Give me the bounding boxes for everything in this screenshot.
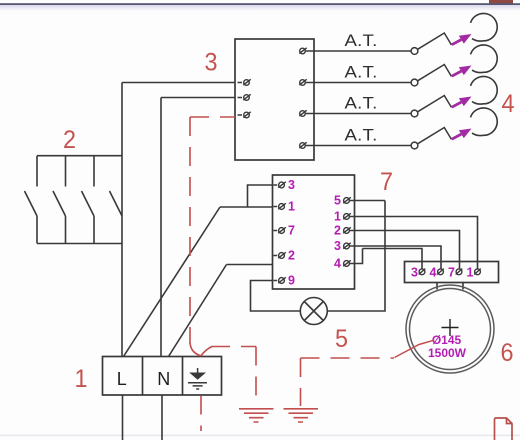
box 3 selector switch body	[235, 39, 314, 160]
wire strip to motor tick 1	[436, 283, 438, 290]
switch contact row4	[411, 128, 451, 149]
svg-text:7: 7	[448, 266, 455, 280]
earth wiring dashed to ground 1	[211, 347, 256, 407]
wire U7 right pin2 to strip	[355, 231, 460, 269]
connector strip body	[405, 262, 499, 283]
heating element coil 1	[471, 13, 498, 41]
bottom border faint line	[0, 435, 520, 437]
svg-text:N: N	[157, 369, 170, 389]
svg-text:4: 4	[502, 90, 515, 118]
U7 left terminals	[274, 182, 286, 284]
main dark wires	[122, 51, 478, 440]
wire box3 output row1	[306, 50, 411, 52]
ground symbol 1	[239, 409, 274, 422]
svg-text:5: 5	[335, 325, 348, 353]
switch contact row1	[411, 33, 451, 54]
svg-text:3: 3	[205, 49, 218, 77]
svg-text:1: 1	[75, 365, 88, 393]
wire supply cord N	[161, 395, 163, 440]
connector strip numbers	[411, 266, 474, 280]
svg-text:A.T.: A.T.	[345, 32, 378, 50]
A.T. label row3	[345, 95, 378, 113]
svg-text:6: 6	[501, 339, 514, 367]
svg-text:A.T.: A.T.	[345, 64, 378, 82]
earth leader to motor	[395, 340, 435, 357]
svg-text:7: 7	[288, 224, 295, 238]
svg-text:9: 9	[288, 274, 295, 288]
label 3	[205, 49, 218, 77]
switch contact row3	[411, 96, 451, 117]
wire U7 pin1 horizontal	[220, 206, 273, 208]
svg-text:Ø145: Ø145	[432, 333, 462, 347]
arrow row2	[452, 66, 472, 77]
U7 right pin numbers	[334, 194, 341, 271]
box 3 left terminals	[238, 79, 251, 117]
arrow row1	[452, 34, 472, 45]
svg-text:L: L	[117, 369, 127, 389]
heating element coil 2	[471, 45, 498, 73]
label 4	[502, 90, 515, 118]
label 6	[501, 339, 514, 367]
wire U7 right pin4 to strip	[355, 249, 423, 269]
bottom-right page icon	[495, 418, 513, 440]
connector strip terminals	[419, 269, 481, 275]
wire U7 pin9 to lamp	[251, 281, 301, 312]
wire supply cord L	[122, 395, 124, 440]
A.T. label row4	[345, 127, 378, 145]
svg-text:A.T.: A.T.	[345, 127, 378, 145]
U7 right terminals	[343, 197, 354, 266]
wire box3 output row2	[306, 82, 411, 84]
svg-text:5: 5	[334, 194, 341, 208]
wire L riser	[121, 83, 123, 357]
wire U7 right pin1 to strip	[355, 217, 478, 269]
wire U7 right pin3 to strip	[355, 246, 442, 269]
arrow row4	[452, 129, 472, 140]
svg-text:A.T.: A.T.	[345, 95, 378, 113]
fan motor text	[428, 333, 467, 360]
svg-text:4: 4	[334, 257, 341, 271]
earth wiring red dashed: box3 pin to riser	[190, 117, 235, 344]
wire L top horizontal to box 3 terminal 1	[122, 82, 235, 84]
svg-text:2: 2	[288, 249, 295, 263]
wire box3 output row3	[306, 113, 411, 115]
svg-text:2: 2	[63, 126, 76, 154]
svg-text:3: 3	[334, 239, 341, 253]
top border line	[0, 3, 520, 11]
wire box3 output row4	[306, 145, 411, 147]
U7 left pin numbers	[288, 178, 295, 288]
fan motor 6	[406, 285, 494, 373]
heating element coil 3	[471, 76, 498, 104]
wire lamp to U7 pin5	[328, 201, 386, 312]
earth wiring curve into terminal block	[190, 343, 212, 356]
control unit U7 body	[273, 175, 355, 289]
switch contact row2	[411, 65, 451, 86]
arrow row3	[452, 97, 472, 108]
svg-text:3: 3	[288, 178, 295, 192]
heating element coil 4	[471, 108, 498, 136]
svg-text:1: 1	[334, 210, 341, 224]
earth wiring dashed below block	[200, 396, 202, 432]
svg-text:1500W: 1500W	[428, 346, 467, 360]
fan motor centre cross	[442, 319, 459, 336]
wire diagonal N to U7 pin 2	[169, 265, 227, 357]
wire N riser	[160, 98, 162, 357]
wire strip to motor tick 2	[462, 283, 464, 290]
terminal block 1 body	[103, 357, 222, 396]
A.T. label row1	[345, 32, 378, 50]
box 3 right terminals	[299, 48, 306, 149]
svg-text:4: 4	[430, 266, 437, 280]
terminal block letters	[117, 369, 171, 389]
svg-text:1: 1	[467, 266, 474, 280]
label 1	[75, 365, 88, 393]
switch bank 2	[25, 156, 123, 244]
earth wiring dashed lamp/motor branch	[301, 358, 395, 406]
svg-text:1: 1	[288, 200, 295, 214]
svg-text:2: 2	[334, 224, 341, 238]
wire U7 pin3 jumper	[248, 185, 273, 207]
label 7	[380, 168, 393, 196]
svg-text:3: 3	[411, 266, 418, 280]
ground symbol 2	[284, 409, 319, 422]
label 2	[63, 126, 76, 154]
top border maroon tab	[489, 0, 513, 4]
wire diagonal L to U7 pin 1	[124, 207, 221, 357]
label 5	[335, 325, 348, 353]
wire N top horizontal to box 3 terminal 2	[161, 97, 235, 99]
A.T. label row2	[345, 64, 378, 82]
wire U7 pin2 horizontal	[227, 264, 273, 266]
svg-text:7: 7	[380, 168, 393, 196]
terminal block earth symbol	[188, 368, 207, 389]
lamp 5	[300, 298, 327, 325]
